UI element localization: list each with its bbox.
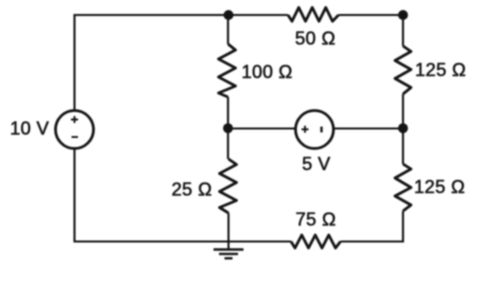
resistor R5 125ohm lower <box>395 164 411 211</box>
wire right rail middle segment <box>402 94 404 164</box>
wire bottom rail left segment <box>74 240 292 242</box>
wire middle branch upper stub to R4 <box>227 129 229 160</box>
wire right rail top stub <box>402 15 404 46</box>
ground stub <box>227 242 229 250</box>
resistor R3 125ohm upper <box>395 46 411 94</box>
node B top right junction <box>398 10 408 20</box>
wire left rail upper <box>73 14 75 111</box>
svg-text:125 Ω: 125 Ω <box>414 176 465 197</box>
wire top rail right segment <box>339 14 404 16</box>
svg-text:5 V: 5 V <box>302 153 331 174</box>
wire middle branch lower stub <box>227 213 229 242</box>
wire middle branch mid stub <box>227 97 229 129</box>
V1 plus sign <box>71 116 78 123</box>
voltage source V2 circle <box>296 111 334 149</box>
V2 plus sign <box>302 126 309 133</box>
svg-text:25 Ω: 25 Ω <box>172 179 213 200</box>
resistor R6 75ohm <box>291 235 341 248</box>
node A top middle junction <box>224 10 234 20</box>
node C center junction <box>223 123 233 133</box>
ground bar 1 <box>214 248 244 250</box>
voltage source V1 circle <box>56 111 94 149</box>
resistor R1 50ohm <box>288 8 339 22</box>
resistor R4 25ohm <box>220 159 237 213</box>
svg-text:10 V: 10 V <box>10 118 49 139</box>
wire middle branch top stub <box>227 15 229 44</box>
svg-text:50 Ω: 50 Ω <box>295 28 336 49</box>
wire right rail bottom stub <box>402 211 404 243</box>
wire top rail left segment <box>75 14 230 16</box>
wire left rail lower <box>73 149 75 242</box>
svg-text:75 Ω: 75 Ω <box>296 209 337 230</box>
resistor R2 100ohm <box>219 44 236 97</box>
node D middle right junction <box>398 123 408 133</box>
V1 minus sign <box>72 136 79 138</box>
wire center horizontal left segment <box>228 127 295 129</box>
wire top rail middle segment <box>228 14 288 16</box>
svg-text:100 Ω: 100 Ω <box>242 61 293 82</box>
svg-text:125 Ω: 125 Ω <box>415 59 466 80</box>
ground bar 3 <box>225 257 233 259</box>
wire center horizontal right segment <box>334 127 403 129</box>
ground bar 2 <box>219 253 238 255</box>
V2 minus sign vertical dash <box>320 127 322 133</box>
wire bottom rail right segment <box>341 240 405 242</box>
